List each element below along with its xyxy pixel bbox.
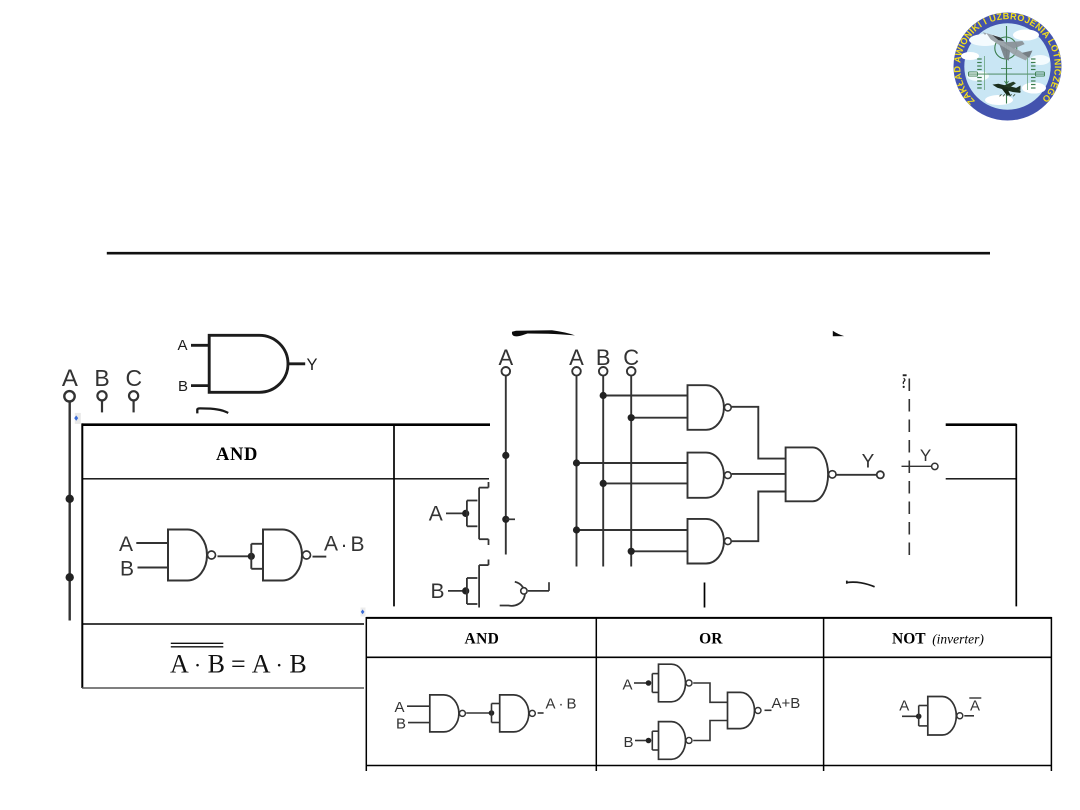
svg-text:A · B: A · B xyxy=(546,696,577,713)
svg-text:A: A xyxy=(970,698,980,715)
svg-text:A: A xyxy=(324,533,338,556)
svg-text:AND: AND xyxy=(216,445,258,465)
svg-text:Y: Y xyxy=(862,452,875,473)
svg-text:B: B xyxy=(350,533,364,556)
svg-text:OR: OR xyxy=(699,631,723,648)
svg-text:B: B xyxy=(178,378,188,395)
svg-text:C: C xyxy=(125,365,142,391)
svg-text:AND: AND xyxy=(465,631,500,648)
svg-text:A: A xyxy=(429,503,443,526)
svg-text:Y: Y xyxy=(920,446,931,465)
svg-text:B: B xyxy=(623,734,633,751)
svg-text:A: A xyxy=(899,698,909,715)
svg-text:Y: Y xyxy=(306,356,317,374)
svg-text:B: B xyxy=(396,716,406,733)
svg-text:B: B xyxy=(120,558,134,581)
svg-text:A: A xyxy=(622,677,632,694)
svg-text:A: A xyxy=(394,699,404,716)
svg-text:A · B=A · B: A · B=A · B xyxy=(170,650,307,679)
svg-text:B: B xyxy=(430,580,444,603)
svg-text:A+B: A+B xyxy=(772,695,801,712)
svg-text:NOT (inverter): NOT (inverter) xyxy=(892,631,984,648)
svg-text:B: B xyxy=(94,365,109,391)
svg-text:·: · xyxy=(341,534,348,557)
svg-text:A: A xyxy=(119,533,133,556)
svg-text:A: A xyxy=(62,365,78,392)
svg-text:A: A xyxy=(177,337,187,354)
